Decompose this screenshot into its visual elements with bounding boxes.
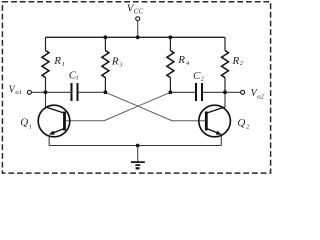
- svg-text:4: 4: [186, 60, 189, 67]
- svg-text:2: 2: [240, 61, 243, 67]
- svg-text:Q: Q: [20, 116, 28, 128]
- svg-text:R: R: [53, 55, 61, 67]
- svg-text:R: R: [177, 54, 185, 66]
- svg-text:1: 1: [76, 76, 79, 82]
- svg-text:C: C: [193, 70, 201, 82]
- svg-text:Q: Q: [237, 117, 245, 129]
- svg-text:3: 3: [119, 62, 123, 68]
- svg-text:o2: o2: [257, 93, 264, 100]
- svg-text:1: 1: [29, 124, 32, 130]
- svg-text:R: R: [111, 55, 119, 67]
- svg-text:o1: o1: [15, 89, 22, 96]
- svg-text:CC: CC: [134, 7, 144, 15]
- svg-text:1: 1: [62, 62, 65, 68]
- svg-text:2: 2: [201, 76, 204, 82]
- svg-text:R: R: [232, 55, 240, 67]
- svg-text:2: 2: [246, 124, 249, 130]
